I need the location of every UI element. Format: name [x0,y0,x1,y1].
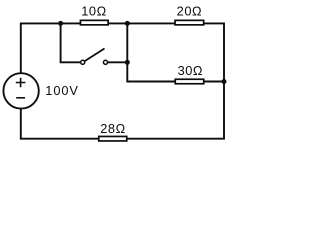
wire: switch to node B [108,61,127,63]
svg-text:30Ω: 30Ω [178,63,203,78]
voltage source V1 plus sign [16,78,26,88]
switch S1: blade [85,49,104,61]
junction node B (top wire / middle vertical) [125,21,130,26]
label 100V [45,83,79,98]
label 30Ω [178,63,203,78]
svg-text:20Ω: 20Ω [177,3,202,18]
svg-text:28Ω: 28Ω [100,121,125,136]
voltage source V1 minus sign [16,97,25,99]
wire: bottom wire + left lower segment [21,109,225,139]
wire: right vertical [223,22,225,138]
wire: switch branch from node A down and to switch [61,23,81,62]
wire: middle vertical + 30 ohm row [127,23,224,81]
label 10Ω [81,3,106,18]
resistor R2 20Ω (top right) [175,20,204,25]
junction node A (top wire / switch branch) [58,21,63,26]
label 28Ω [100,121,125,136]
switch S1: right contact circle [103,60,107,64]
label 20Ω [177,3,202,18]
resistor R3 30Ω (middle right row) [175,79,204,84]
junction node D (30Ω row / right vertical) [222,79,227,84]
junction node C (switch row / middle vertical) [125,60,130,65]
svg-text:100V: 100V [45,83,79,98]
voltage source V1 circle [3,73,38,108]
resistor R1 10Ω (top left) [80,20,108,25]
switch S1 (open SPST): left contact circle [81,60,85,64]
resistor R4 28Ω (bottom) [99,136,127,141]
svg-text:10Ω: 10Ω [81,3,106,18]
wire: left upper segment + top wire [21,23,224,73]
